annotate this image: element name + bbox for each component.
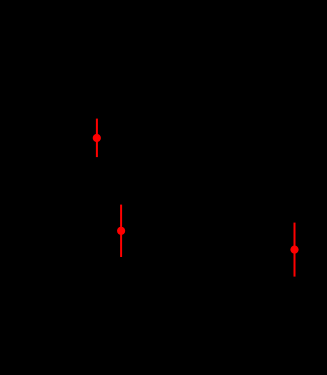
errorbar point 2 <box>117 205 125 257</box>
errorbar point 1 <box>93 119 101 158</box>
errorbar point 3 <box>290 223 298 277</box>
